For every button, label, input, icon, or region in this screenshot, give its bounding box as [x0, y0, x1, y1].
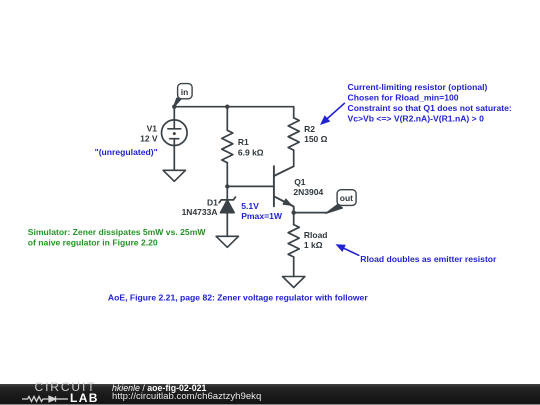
- svg-text:in: in: [181, 87, 189, 97]
- svg-text:Current-limiting resistor (opt: Current-limiting resistor (optional): [348, 82, 488, 92]
- svg-text:1 kΩ: 1 kΩ: [304, 240, 323, 250]
- junction in node: [172, 105, 176, 109]
- logo LAB: [70, 391, 99, 405]
- ground Rload: [283, 277, 305, 288]
- svg-text:Pmax=1W: Pmax=1W: [241, 211, 283, 221]
- junction emitter node: [292, 210, 296, 214]
- svg-text:1N4733A: 1N4733A: [182, 207, 218, 217]
- annotation simulator green: [28, 227, 207, 247]
- logo CIRCUIT: [35, 380, 97, 394]
- svg-text:R2: R2: [304, 124, 315, 134]
- svg-text:2N3904: 2N3904: [293, 187, 323, 197]
- svg-text:R1: R1: [238, 137, 249, 147]
- arrow to Rload: [336, 244, 359, 255]
- svg-text:150 Ω: 150 Ω: [304, 134, 328, 144]
- svg-text:6.9 kΩ: 6.9 kΩ: [238, 147, 264, 157]
- footer bar: [0, 384, 540, 405]
- voltage source V1: [162, 107, 188, 171]
- junction R1 top: [225, 105, 229, 109]
- svg-text:of naive regulator in Figure 2: of naive regulator in Figure 2.20: [28, 237, 158, 247]
- svg-text:5.1V: 5.1V: [241, 201, 259, 211]
- zener diode D1: [219, 186, 235, 236]
- svg-text:D1: D1: [207, 197, 218, 207]
- node out flag: [326, 190, 356, 214]
- resistor Rload: [288, 213, 299, 277]
- svg-text:AoE, Figure 2.21, page 82: Zen: AoE, Figure 2.21, page 82: Zener voltage…: [108, 293, 368, 303]
- wire out: [294, 212, 327, 214]
- svg-text:out: out: [340, 193, 353, 203]
- svg-text:Rload doubles as emitter resis: Rload doubles as emitter resistor: [360, 254, 497, 264]
- wire base rail: [227, 185, 274, 187]
- svg-text:Constraint so that Q1 does not: Constraint so that Q1 does not saturate:: [348, 103, 512, 113]
- svg-text:Vc>Vb <=> V(R2.nA)-V(R1.nA) >: Vc>Vb <=> V(R2.nA)-V(R1.nA) > 0: [348, 114, 485, 124]
- node in flag: [174, 84, 192, 107]
- svg-text:"(unregulated)": "(unregulated)": [95, 147, 158, 157]
- ground D1: [216, 236, 238, 247]
- svg-text:12 V: 12 V: [140, 133, 158, 143]
- logo waveform: [22, 394, 68, 404]
- svg-text:V1: V1: [147, 123, 158, 133]
- annotation current-limiting block: [348, 82, 512, 124]
- credit line: [112, 383, 206, 393]
- transistor Q1: [274, 166, 294, 212]
- resistor R2: [288, 107, 299, 167]
- url line: [112, 391, 261, 402]
- svg-text:Q1: Q1: [294, 177, 306, 187]
- wire top rail: [174, 106, 293, 108]
- junction base node: [225, 184, 229, 188]
- arrow to R2: [320, 103, 344, 125]
- resistor R1: [222, 107, 233, 187]
- svg-text:Chosen for Rload_min=100: Chosen for Rload_min=100: [348, 93, 459, 103]
- svg-text:Rload: Rload: [304, 230, 328, 240]
- ground V1: [163, 170, 185, 181]
- svg-text:Simulator: Zener dissipates 5m: Simulator: Zener dissipates 5mW vs. 25mW: [28, 227, 207, 237]
